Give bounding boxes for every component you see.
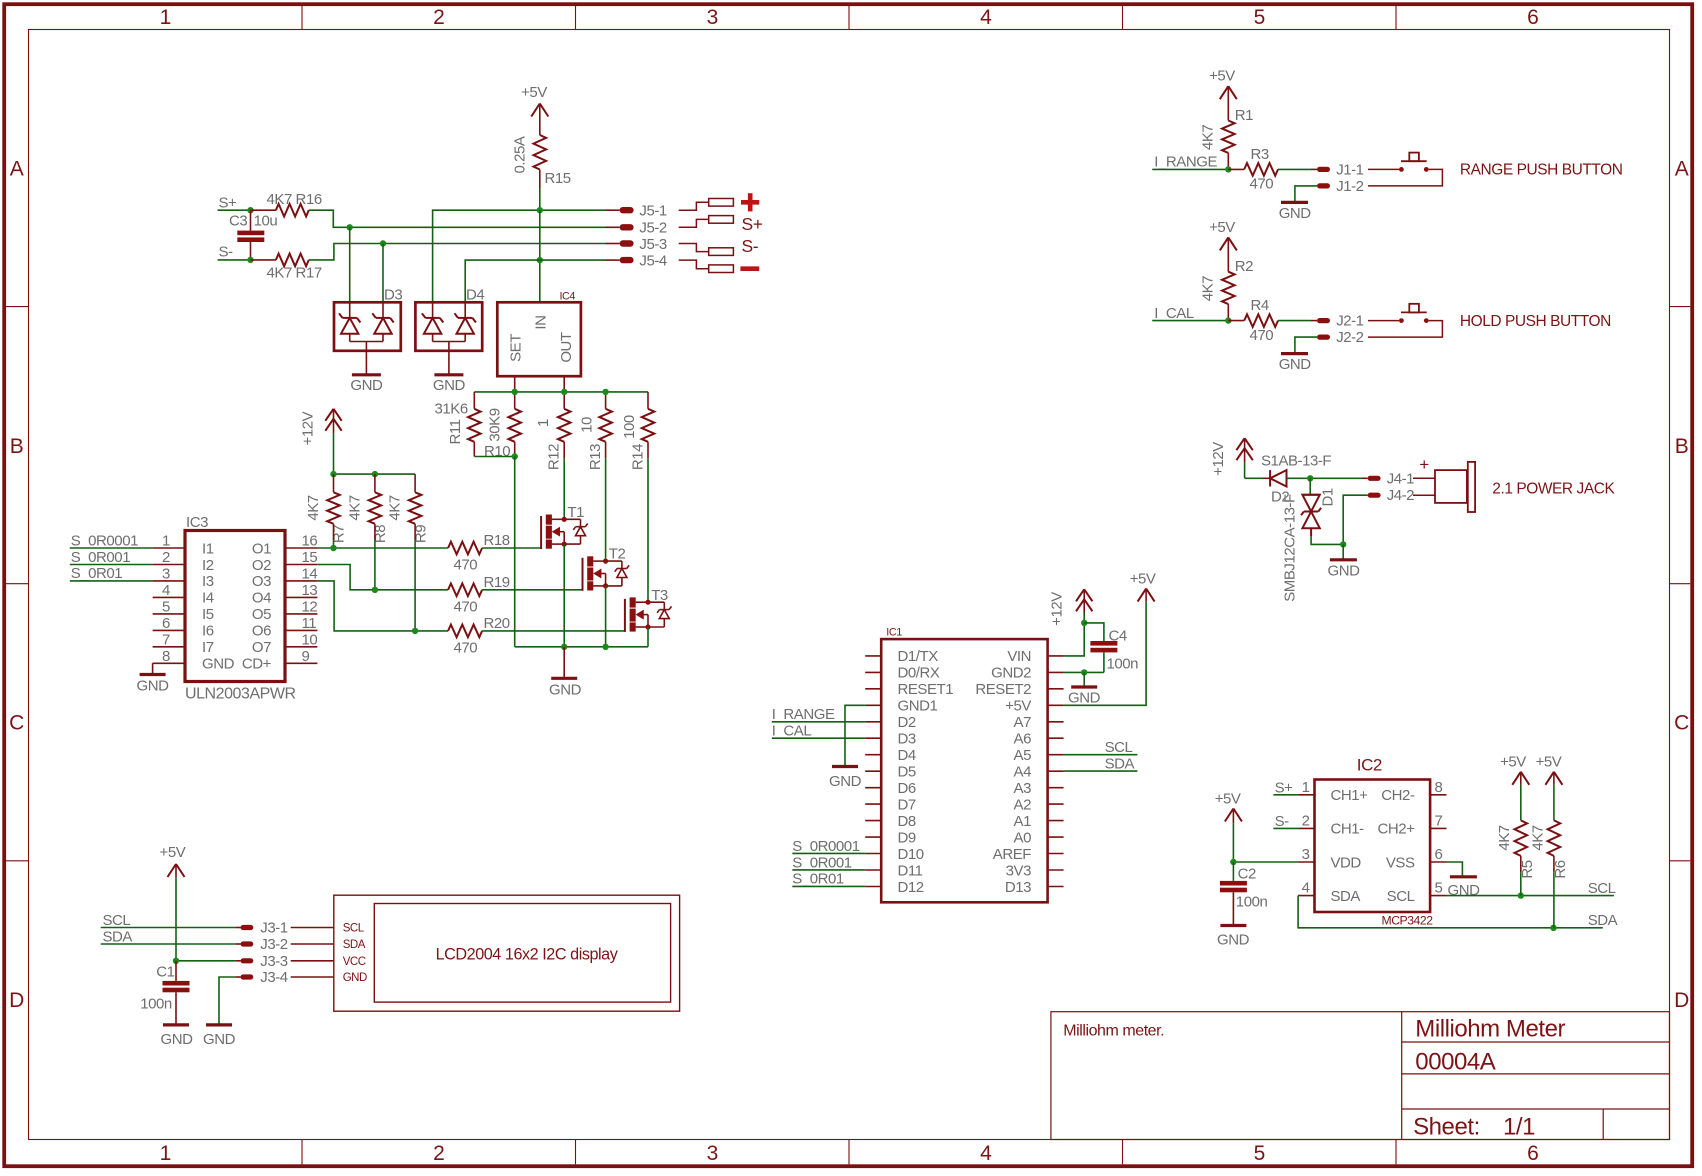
svg-text:10: 10	[578, 417, 595, 433]
wire R12 to T1	[563, 442, 565, 520]
wire R19 to T2 gate	[482, 589, 582, 591]
svg-text:R14: R14	[629, 444, 646, 470]
svg-text:1/1: 1/1	[1503, 1114, 1535, 1141]
power +12V at IC1	[1049, 589, 1093, 626]
svg-text:S_0R0001: S_0R0001	[71, 532, 138, 549]
svg-text:5: 5	[162, 598, 170, 615]
dual zener diode D3	[334, 287, 402, 351]
wire I_CAL	[772, 737, 865, 739]
svg-text:0.25A: 0.25A	[512, 136, 529, 173]
wire S- CH1-	[1273, 827, 1298, 829]
resistor R14	[621, 409, 654, 470]
node S+ junction	[247, 207, 253, 213]
svg-text:J3-3: J3-3	[260, 953, 287, 970]
connector pin J5-1	[606, 203, 667, 220]
wire T2 source down	[605, 586, 607, 647]
svg-text:+5V: +5V	[1500, 754, 1526, 771]
wire switch right	[1368, 321, 1442, 338]
wire R10/R11 bottom	[474, 442, 518, 647]
svg-text:GND: GND	[1328, 563, 1361, 580]
svg-text:R1: R1	[1235, 107, 1253, 124]
svg-text:GND: GND	[1279, 356, 1312, 373]
wire J3-4 to ground	[219, 977, 235, 1025]
svg-text:3: 3	[707, 1142, 718, 1165]
svg-text:GND1: GND1	[898, 698, 938, 715]
svg-text:T2: T2	[609, 546, 626, 563]
label 2.1 POWER JACK	[1492, 481, 1615, 498]
wire GND2	[1064, 669, 1104, 687]
wire I_RANGE	[1152, 166, 1231, 172]
svg-text:GND: GND	[433, 377, 466, 394]
svg-text:Milliohm Meter: Milliohm Meter	[1415, 1016, 1565, 1043]
svg-text:D10: D10	[898, 846, 924, 863]
wire SCL row	[1447, 892, 1614, 898]
wire VSS to ground	[1447, 862, 1463, 876]
svg-text:R4: R4	[1251, 297, 1269, 314]
resistor R11	[435, 401, 481, 445]
power +5V R2	[1209, 219, 1237, 272]
svg-text:D6: D6	[898, 780, 916, 797]
svg-text:I_CAL: I_CAL	[1154, 305, 1194, 322]
power +5V net symbol	[521, 84, 548, 135]
wire divider bus	[474, 389, 648, 409]
svg-text:J5-3: J5-3	[639, 236, 666, 253]
resistor R1	[1200, 107, 1254, 169]
wire S_0R0001 D10	[792, 852, 865, 854]
resistor R7	[305, 492, 348, 548]
svg-text:4: 4	[980, 1142, 992, 1165]
net label SDA right	[1588, 912, 1618, 929]
svg-text:VCC: VCC	[343, 956, 366, 968]
resistor R8	[346, 492, 389, 590]
svg-text:J3-2: J3-2	[260, 936, 287, 953]
net label S_0R0001 left	[71, 532, 138, 549]
svg-text:HOLD PUSH BUTTON: HOLD PUSH BUTTON	[1460, 313, 1611, 330]
svg-text:J2-1: J2-1	[1336, 313, 1363, 330]
svg-text:11: 11	[302, 615, 317, 632]
connector pin J1-1	[1317, 161, 1364, 178]
svg-text:S_0R01: S_0R01	[792, 871, 844, 888]
svg-text:B: B	[10, 435, 24, 458]
ground C1	[161, 1025, 194, 1048]
svg-text:D4: D4	[898, 747, 916, 764]
wire S+ CH1+	[1273, 794, 1298, 796]
svg-text:O6: O6	[252, 623, 271, 640]
svg-text:14: 14	[302, 565, 318, 582]
connector pin J5-4	[606, 252, 667, 269]
wire GND1	[845, 705, 865, 766]
label HOLD PUSH BUTTON	[1460, 313, 1611, 330]
svg-text:IC3: IC3	[186, 514, 208, 531]
svg-text:+5V: +5V	[160, 844, 186, 861]
wire R15 to J5-1 node	[539, 188, 541, 210]
svg-text:GND: GND	[1068, 690, 1101, 707]
connector pin J4-2	[1368, 487, 1415, 504]
svg-text:J5-2: J5-2	[639, 220, 666, 237]
svg-text:AREF: AREF	[993, 846, 1031, 863]
connector pin J3-3	[235, 953, 287, 970]
svg-text:8: 8	[1435, 779, 1443, 796]
svg-text:SDA: SDA	[103, 929, 133, 946]
svg-text:12: 12	[302, 598, 318, 615]
wire R18 to T1 gate	[482, 547, 541, 549]
wire D1 to ground node	[1311, 536, 1343, 544]
svg-text:10: 10	[302, 631, 318, 648]
svg-text:4K7 R17: 4K7 R17	[267, 265, 322, 282]
minus terminal label	[740, 266, 759, 271]
ground J2	[1279, 354, 1312, 374]
power +5V at LCD	[160, 844, 186, 961]
svg-text:O2: O2	[252, 557, 271, 574]
svg-text:6: 6	[1435, 846, 1443, 863]
terminal label S+	[742, 214, 763, 234]
resistor R12	[535, 409, 571, 470]
svg-text:D11: D11	[898, 862, 923, 879]
svg-text:+5V: +5V	[521, 84, 547, 101]
svg-text:R10: R10	[484, 443, 510, 460]
svg-text:7: 7	[162, 631, 170, 648]
wire +5V pin	[1064, 589, 1147, 706]
push button switch J1	[1399, 153, 1429, 172]
svg-text:4: 4	[1302, 880, 1310, 897]
svg-text:6: 6	[1527, 1142, 1538, 1165]
wire J5-2 row	[347, 224, 606, 302]
wire S_0R0001	[70, 547, 153, 549]
svg-text:J2-2: J2-2	[1336, 329, 1363, 346]
svg-text:J1-2: J1-2	[1336, 178, 1363, 195]
svg-text:GND: GND	[829, 773, 862, 790]
svg-text:GND: GND	[1217, 932, 1250, 949]
svg-text:I1: I1	[202, 540, 214, 557]
wire J5-1 row	[433, 210, 606, 302]
svg-text:1: 1	[535, 419, 552, 427]
connector pin J3-4	[235, 969, 287, 986]
ground IC1 GND2	[1068, 687, 1101, 707]
svg-text:470: 470	[454, 639, 478, 656]
wire T1 source down	[563, 544, 565, 647]
svg-text:SDA: SDA	[343, 939, 366, 951]
svg-text:S-: S-	[219, 244, 234, 261]
svg-text:O1: O1	[252, 540, 271, 557]
svg-text:2: 2	[433, 6, 444, 29]
svg-text:I4: I4	[202, 590, 214, 607]
IC IC2 MCP3422	[1298, 756, 1446, 928]
svg-text:6: 6	[1527, 6, 1538, 29]
svg-text:VDD: VDD	[1331, 854, 1362, 871]
wire to J2-1	[1278, 320, 1317, 322]
svg-text:1: 1	[162, 533, 170, 550]
svg-text:J3-1: J3-1	[260, 920, 287, 937]
svg-text:IC4: IC4	[560, 291, 576, 303]
svg-text:+12V: +12V	[1049, 592, 1066, 626]
wire SDA A4	[1064, 770, 1138, 772]
svg-text:1: 1	[160, 6, 171, 29]
svg-text:J1-1: J1-1	[1336, 161, 1363, 178]
svg-text:+5V: +5V	[1215, 791, 1241, 808]
svg-text:+12V: +12V	[299, 411, 316, 445]
svg-text:9: 9	[302, 648, 310, 665]
svg-text:C1: C1	[156, 964, 174, 981]
svg-text:470: 470	[1250, 327, 1274, 344]
svg-text:+5V: +5V	[1536, 754, 1562, 771]
svg-text:3V3: 3V3	[1006, 862, 1031, 879]
wire SDA row	[1298, 896, 1603, 931]
push button switch J2	[1399, 304, 1429, 323]
svg-text:O3: O3	[252, 573, 271, 590]
label RANGE PUSH BUTTON	[1460, 162, 1623, 179]
node S- junction	[247, 257, 253, 263]
resistor R2	[1200, 258, 1254, 321]
svg-text:SCL: SCL	[103, 912, 131, 929]
svg-text:2.1 POWER JACK: 2.1 POWER JACK	[1492, 481, 1615, 498]
ground D4	[433, 351, 466, 394]
svg-text:D8: D8	[898, 813, 916, 830]
svg-text:SET: SET	[508, 334, 525, 362]
connector pin J3-1	[235, 920, 287, 937]
svg-text:A4: A4	[1014, 764, 1032, 781]
svg-text:GND: GND	[350, 377, 383, 394]
resistor R4	[1228, 297, 1278, 344]
wire R13 to T2	[605, 442, 607, 561]
svg-text:OUT: OUT	[558, 332, 575, 363]
svg-text:3: 3	[162, 565, 170, 582]
svg-text:C3: C3	[229, 213, 247, 230]
svg-text:RESET1: RESET1	[898, 681, 954, 698]
terminal symbol row3	[679, 244, 734, 256]
svg-text:C4: C4	[1109, 628, 1127, 645]
wire R14 to T3	[647, 442, 649, 602]
svg-text:GND: GND	[137, 678, 170, 695]
capacitor C3	[229, 210, 277, 260]
svg-text:VSS: VSS	[1386, 854, 1415, 871]
wire transistor gnd row	[515, 644, 648, 650]
svg-text:CH2+: CH2+	[1378, 821, 1416, 838]
wire to J1-1	[1278, 168, 1317, 170]
svg-text:IC1: IC1	[886, 627, 902, 639]
net label S-	[219, 244, 234, 261]
svg-text:I_CAL: I_CAL	[772, 723, 812, 740]
svg-text:A1: A1	[1014, 813, 1032, 830]
svg-text:S+: S+	[219, 195, 238, 212]
svg-text:+5V: +5V	[1130, 571, 1156, 588]
connector pin J4-1	[1362, 470, 1414, 487]
net label I_RANGE at IC1	[772, 706, 835, 723]
svg-text:A0: A0	[1014, 829, 1032, 846]
svg-text:C2: C2	[1238, 866, 1256, 883]
net label SDA at IC1	[1105, 756, 1135, 773]
IC IC1 controller	[865, 627, 1063, 903]
plus terminal label	[741, 193, 759, 211]
svg-text:100: 100	[621, 415, 638, 439]
svg-text:S-: S-	[742, 236, 759, 256]
svg-text:6: 6	[162, 615, 170, 632]
wire O1 row	[317, 545, 448, 551]
svg-text:A7: A7	[1014, 714, 1032, 731]
svg-text:O7: O7	[252, 639, 271, 656]
svg-text:13: 13	[302, 582, 318, 599]
svg-text:A: A	[1675, 158, 1689, 181]
svg-text:SCL: SCL	[1105, 739, 1133, 756]
wire J2-2 to ground	[1295, 337, 1317, 353]
svg-text:S_0R001: S_0R001	[71, 549, 131, 566]
svg-text:I7: I7	[202, 639, 214, 656]
svg-text:I_RANGE: I_RANGE	[772, 706, 835, 723]
svg-text:D0/RX: D0/RX	[898, 665, 940, 682]
svg-text:IC2: IC2	[1357, 756, 1382, 775]
svg-text:+12V: +12V	[1210, 442, 1227, 476]
wire SCL J3-1	[101, 927, 236, 929]
wire S_0R001 D11	[792, 869, 865, 871]
terminal label S-	[742, 236, 759, 256]
svg-text:4K7 R16: 4K7 R16	[267, 191, 322, 208]
connector pin J2-1	[1317, 313, 1364, 330]
svg-text:S_0R01: S_0R01	[71, 565, 123, 582]
svg-text:SMBJ12CA-13-F: SMBJ12CA-13-F	[1282, 494, 1299, 602]
resistor R9	[387, 492, 430, 631]
svg-text:Milliohm meter.: Milliohm meter.	[1063, 1023, 1164, 1040]
svg-text:3: 3	[1302, 846, 1310, 863]
net label S_0R001 left	[71, 549, 131, 566]
wire +5V J3-3	[173, 958, 236, 964]
ground IC1 GND1	[829, 767, 862, 791]
svg-text:S_0R0001: S_0R0001	[792, 838, 859, 855]
svg-text:R2: R2	[1235, 258, 1253, 275]
svg-text:R15: R15	[545, 170, 571, 187]
svg-text:VIN: VIN	[1007, 648, 1031, 665]
svg-text:GND: GND	[203, 1031, 236, 1048]
wire D2 to J4-1	[1287, 475, 1363, 481]
svg-text:15: 15	[302, 549, 318, 566]
resistor R17	[251, 254, 322, 282]
ground C2	[1217, 926, 1250, 949]
svg-text:R11: R11	[447, 419, 464, 444]
svg-text:CH2-: CH2-	[1381, 787, 1415, 804]
svg-text:B: B	[1675, 435, 1689, 458]
resistor R6	[1529, 772, 1569, 928]
svg-text:SCL: SCL	[1588, 880, 1616, 897]
svg-text:A6: A6	[1014, 731, 1032, 748]
wire VDD	[1230, 809, 1298, 866]
svg-text:GND: GND	[161, 1031, 194, 1048]
svg-text:4K7: 4K7	[1200, 276, 1217, 301]
svg-text:100n: 100n	[1107, 656, 1139, 673]
power +12V jack symbol	[1210, 438, 1253, 478]
svg-text:4: 4	[980, 6, 992, 29]
wire SCL A5	[1064, 754, 1138, 756]
power +12V symbol	[299, 409, 341, 474]
svg-text:SDA: SDA	[1105, 756, 1135, 773]
node J5-1/R15 junction	[537, 207, 543, 213]
svg-text:4K7: 4K7	[387, 495, 404, 520]
terminal symbol row4	[679, 260, 734, 272]
svg-text:100n: 100n	[140, 996, 172, 1013]
svg-text:J5-1: J5-1	[639, 203, 666, 220]
svg-text:ULN2003APWR: ULN2003APWR	[185, 686, 296, 703]
ground IC3 pin8	[137, 663, 170, 694]
svg-text:I3: I3	[202, 573, 214, 590]
capacitor C4	[1084, 623, 1138, 673]
svg-text:GND: GND	[1448, 882, 1481, 899]
node J5-4/IN junction	[537, 257, 543, 263]
wire S_0R01 D12	[792, 885, 865, 887]
svg-text:D7: D7	[898, 796, 916, 813]
svg-text:GND2: GND2	[991, 665, 1031, 682]
svg-text:D1/TX: D1/TX	[898, 648, 939, 665]
svg-text:00004A: 00004A	[1415, 1049, 1495, 1076]
svg-text:O5: O5	[252, 606, 271, 623]
svg-text:100n: 100n	[1236, 894, 1268, 911]
svg-text:SDA: SDA	[1588, 912, 1618, 929]
power +5V R1	[1209, 68, 1237, 121]
svg-text:+5V: +5V	[1209, 219, 1235, 236]
dual zener diode D4	[415, 287, 484, 351]
svg-text:7: 7	[1435, 812, 1443, 829]
wire R17 to J5-3 row	[309, 244, 383, 260]
resistor R16	[251, 191, 322, 217]
svg-text:A2: A2	[1014, 796, 1032, 813]
svg-text:4K7: 4K7	[1200, 125, 1217, 150]
svg-text:2: 2	[1302, 812, 1310, 829]
svg-text:R18: R18	[484, 532, 510, 549]
tvs diode D1 SMBJ12CA-13-F	[1282, 478, 1337, 601]
diode D2 S1AB-13-F	[1245, 453, 1332, 506]
svg-text:RANGE PUSH BUTTON: RANGE PUSH BUTTON	[1460, 162, 1623, 179]
connector pin J5-2	[606, 220, 667, 237]
svg-text:+: +	[1419, 455, 1429, 474]
svg-text:D2: D2	[898, 714, 916, 731]
net label SCL right	[1588, 880, 1616, 897]
net label I_CAL at IC1	[772, 723, 812, 740]
net label S_0R01 at IC1	[792, 871, 844, 888]
svg-text:Sheet:: Sheet:	[1413, 1114, 1480, 1141]
svg-text:470: 470	[454, 557, 478, 574]
net label I_CAL	[1154, 305, 1194, 322]
svg-text:R19: R19	[484, 574, 510, 591]
title block	[1051, 1012, 1670, 1141]
terminal symbol row1	[679, 199, 734, 211]
wire +12V bus	[330, 471, 415, 492]
power +5V at IC2	[1215, 791, 1242, 822]
capacitor C1	[140, 961, 189, 1025]
svg-text:R13: R13	[587, 444, 604, 470]
connector pin J5-3	[606, 236, 667, 253]
svg-text:D5: D5	[898, 764, 916, 781]
svg-text:D4: D4	[466, 287, 484, 304]
svg-text:D3: D3	[384, 287, 402, 304]
svg-text:A3: A3	[1014, 780, 1032, 797]
svg-text:R12: R12	[546, 444, 563, 470]
svg-text:4K7: 4K7	[1529, 825, 1546, 850]
svg-text:A5: A5	[1014, 747, 1032, 764]
svg-text:I_RANGE: I_RANGE	[1154, 154, 1217, 171]
svg-text:D3: D3	[898, 731, 916, 748]
ground transistors	[549, 647, 582, 699]
svg-text:J5-4: J5-4	[639, 252, 666, 269]
wire T3 source down	[647, 627, 649, 647]
resistor R18	[448, 532, 510, 574]
resistor R5	[1496, 772, 1536, 896]
svg-text:3: 3	[707, 6, 718, 29]
svg-text:J4-1: J4-1	[1387, 470, 1414, 487]
svg-text:5: 5	[1435, 880, 1443, 897]
wire I_CAL	[1152, 317, 1231, 323]
svg-text:R20: R20	[484, 615, 510, 632]
ground J1	[1279, 202, 1312, 222]
connector pin J2-2	[1317, 329, 1364, 346]
svg-text:I6: I6	[202, 623, 214, 640]
capacitor C2	[1220, 862, 1268, 926]
IC IC3 ULN2003APWR	[153, 514, 318, 703]
